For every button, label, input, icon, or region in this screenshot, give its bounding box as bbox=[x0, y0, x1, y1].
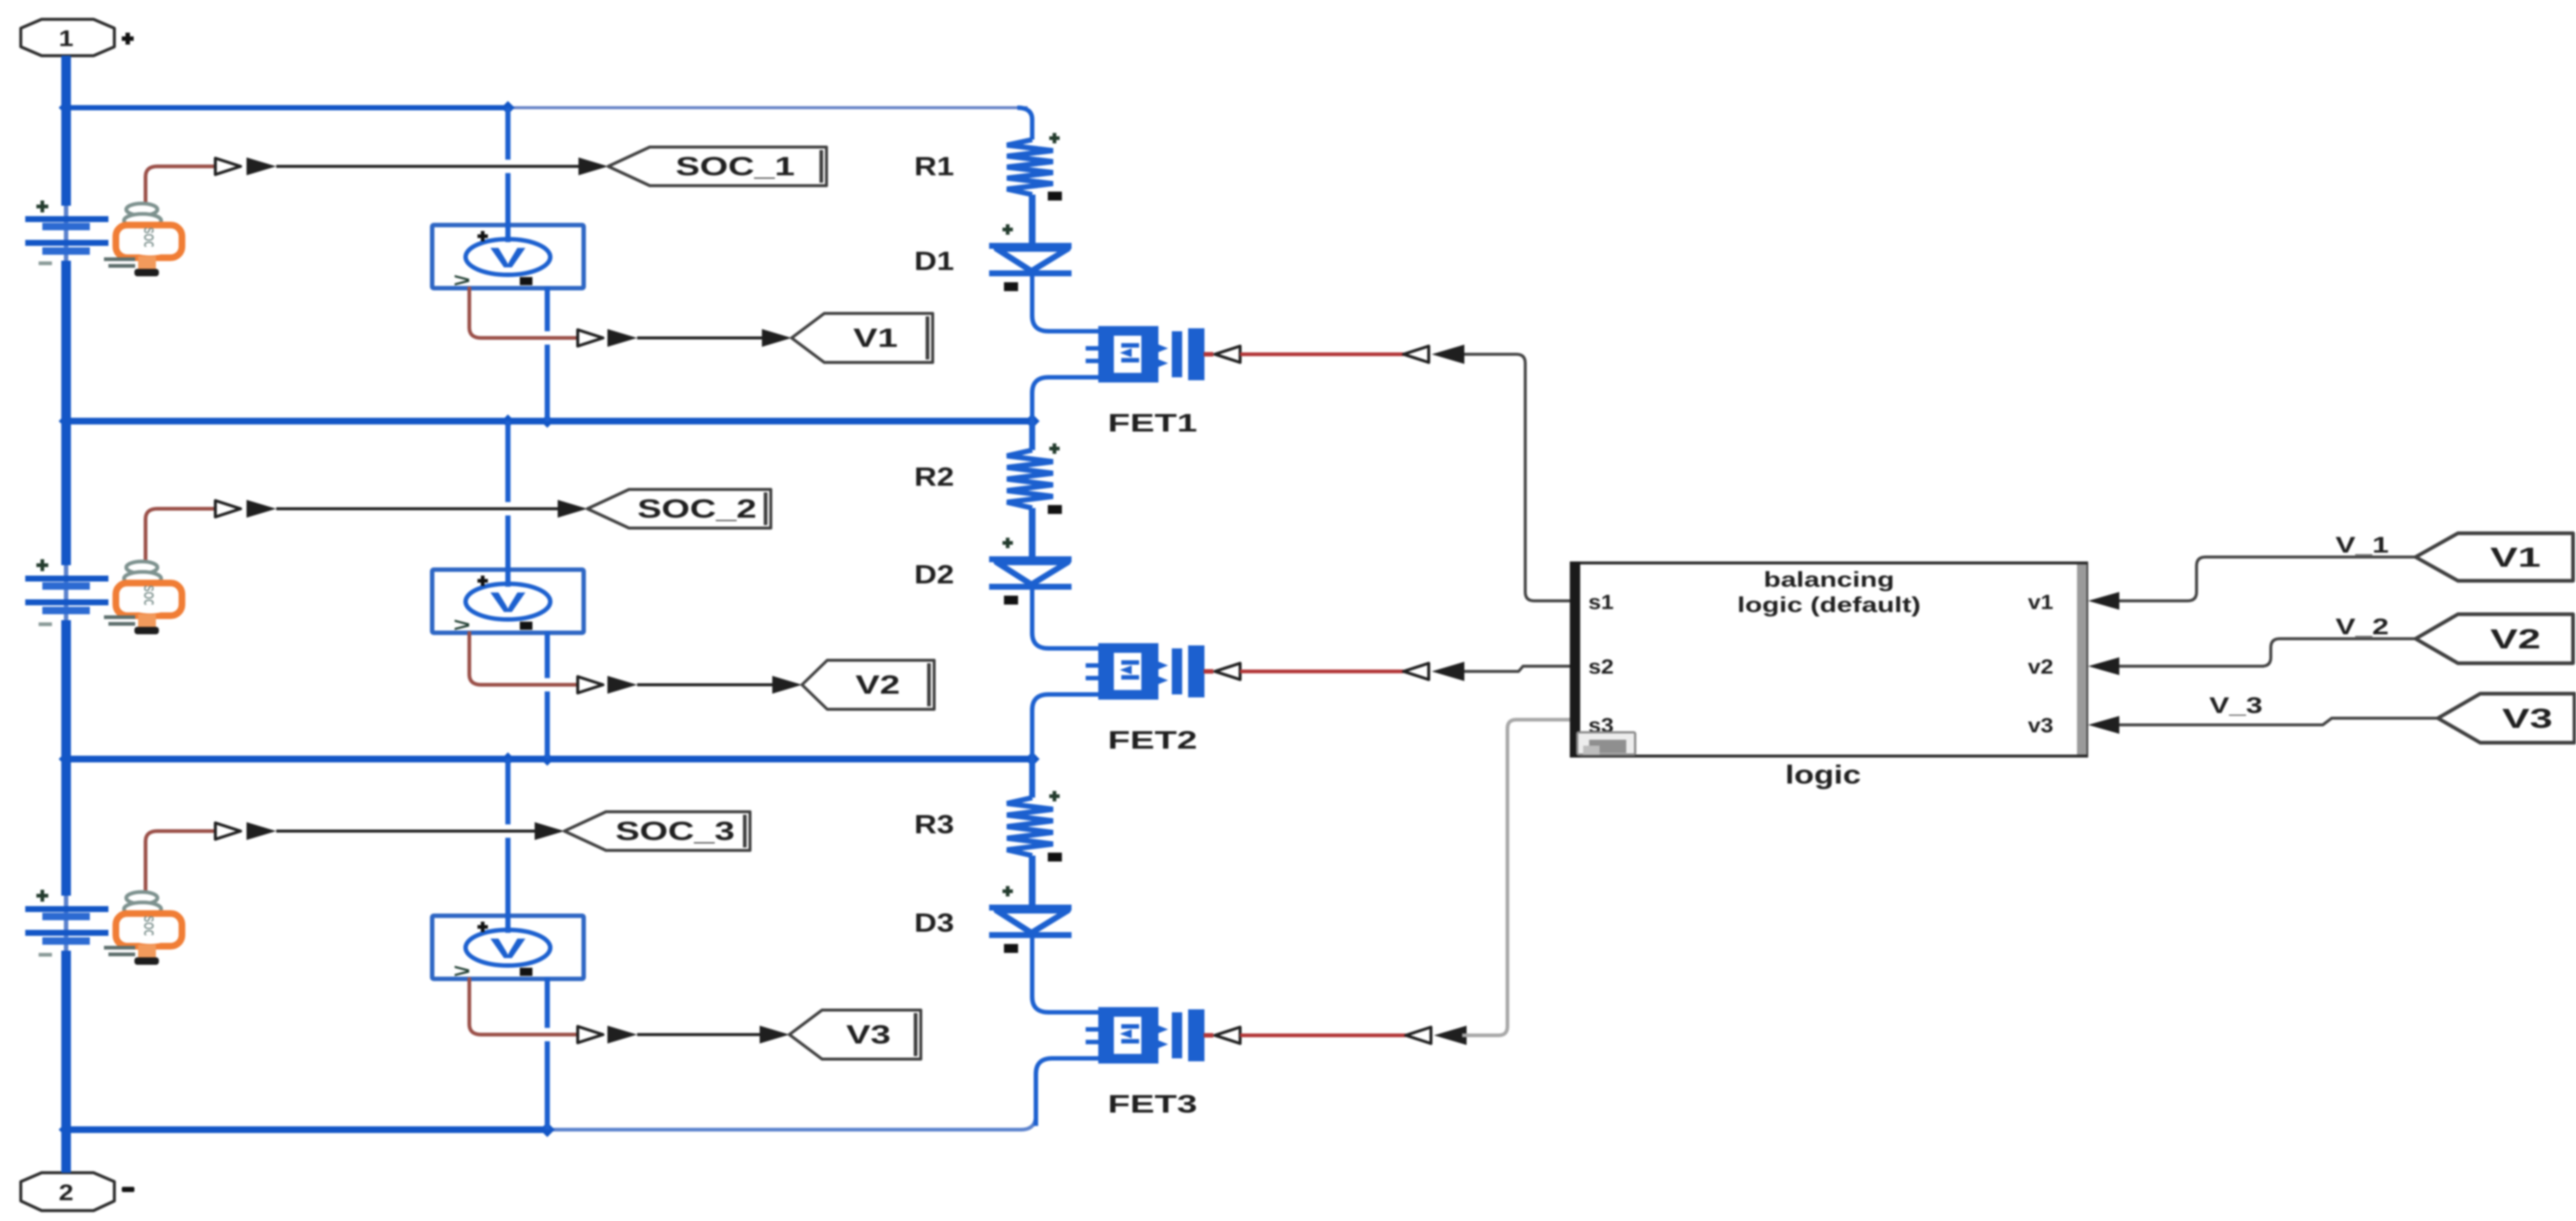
wire: V2 measurement (brown) from sensor output to signal line bbox=[469, 631, 578, 685]
svg-text:logic (default): logic (default) bbox=[1737, 593, 1920, 617]
gate arrow pair s1 (solid) bbox=[1432, 345, 1464, 364]
svg-text:R3: R3 bbox=[914, 810, 954, 839]
R1 - terminal dot bbox=[1048, 192, 1062, 201]
balancing logic block right port bar bbox=[2077, 564, 2087, 755]
signal arrow (solid) SOC_1 bbox=[247, 157, 276, 175]
wire: gate red line FET2 bbox=[1240, 670, 1403, 674]
voltage sensor V3 block (cell 3) bbox=[432, 916, 584, 982]
wire: main vertical bus from port 1 to port 2 bbox=[62, 56, 71, 1173]
SOC sensor 3 (state-of-charge sensor, cell 3) bbox=[104, 892, 182, 965]
D3 - terminal dot bbox=[1004, 944, 1018, 953]
balancing logic block left port bar bbox=[1570, 561, 1580, 758]
svg-text:V: V bbox=[490, 242, 526, 273]
SOC sensor 1 (state-of-charge sensor, cell 1) bbox=[104, 203, 182, 276]
FET1 gate stub (red) bbox=[1204, 352, 1213, 356]
signal arrow (solid) SOC_3 bbox=[247, 822, 276, 840]
node: bus3 junction at main bus bbox=[59, 752, 74, 766]
signal arrow at SOC_3 tag bbox=[535, 822, 564, 840]
signal arrow at V1 tag bbox=[762, 329, 792, 347]
signal arrow at SOC_2 tag bbox=[558, 500, 587, 518]
label D2 bbox=[914, 561, 954, 590]
svg-text:SOC: SOC bbox=[140, 585, 156, 606]
SOC sensor 2 (state-of-charge sensor, cell 2) bbox=[104, 561, 182, 634]
node: bus2 junction at main bus bbox=[59, 414, 74, 429]
label R2 bbox=[914, 463, 954, 492]
net label V_1 bbox=[2335, 532, 2389, 558]
goto tag SOC_1 bbox=[608, 147, 826, 186]
battery cell 2 + mark bbox=[36, 559, 48, 571]
node: bus3 junction at sensor feed bbox=[501, 752, 515, 766]
diode D1 bbox=[989, 246, 1072, 273]
node: bus2 junction at balancing chain bbox=[1025, 414, 1040, 429]
port label s3 bbox=[1588, 714, 1614, 737]
wire: FET1 source to bus2 bbox=[1032, 377, 1099, 421]
svg-text:D1: D1 bbox=[914, 247, 954, 276]
label logic (block name) bbox=[1785, 761, 1861, 789]
wire: R1 to D1 bbox=[1029, 195, 1036, 246]
wire: V2 signal line bbox=[637, 683, 775, 686]
wire: FET3 source to bus4 bbox=[1036, 1058, 1099, 1126]
signal arrow (solid) V1 bbox=[607, 329, 637, 347]
voltage sensor V2 block (cell 2) bbox=[432, 570, 584, 636]
gate arrow pair s2 (open) bbox=[1403, 663, 1429, 680]
battery cell 3 - mark bbox=[39, 953, 52, 957]
svg-text:v1: v1 bbox=[2028, 590, 2053, 613]
wire: D3 to FET3 drain bbox=[1032, 935, 1099, 1012]
input arrow v1 bbox=[2088, 592, 2119, 610]
svg-text:logic: logic bbox=[1785, 761, 1861, 789]
battery cell 2 - mark bbox=[39, 622, 52, 626]
wire: SOC_2 signal line bbox=[276, 507, 561, 510]
label R1 bbox=[914, 152, 954, 181]
svg-text:SOC: SOC bbox=[140, 227, 156, 248]
wire: bus 3 (cell2-/cell3+) bbox=[62, 756, 1032, 763]
wire: cell3 sensor feed (bus3 to V3 sensor +) bbox=[506, 759, 511, 933]
battery cell 3 + mark bbox=[36, 890, 48, 902]
voltage sensor V1 block (cell 1) bbox=[432, 225, 584, 291]
from tag V2 bbox=[2416, 614, 2573, 663]
D2 - terminal dot bbox=[1004, 596, 1018, 605]
wire: s1 from logic block to FET1 gate bbox=[1464, 354, 1573, 601]
signal arrow at V2 tag bbox=[772, 676, 802, 694]
svg-text:D3: D3 bbox=[914, 909, 954, 938]
svg-text:V1: V1 bbox=[2491, 541, 2541, 573]
R2 - terminal dot bbox=[1048, 505, 1062, 514]
input arrow v3 bbox=[2088, 716, 2119, 734]
FET3 gate stub (red) bbox=[1204, 1033, 1213, 1038]
svg-text:V_3: V_3 bbox=[2209, 692, 2263, 718]
label FET1 bbox=[1108, 408, 1197, 437]
wire: FET2 source to bus3 bbox=[1032, 694, 1099, 759]
node: bus2 junction at sensor return bbox=[541, 414, 554, 428]
battery cell 1 + mark bbox=[36, 201, 48, 212]
signal arrow (open) SOC_1 bbox=[215, 158, 241, 175]
svg-text:SOC_2: SOC_2 bbox=[637, 495, 757, 524]
resistor R3 (balancing resistor) bbox=[1007, 798, 1053, 856]
port label s2 bbox=[1588, 655, 1614, 678]
wire: bus 4 (bottom, cell3 -) bbox=[62, 1115, 1036, 1130]
signal arrow (solid) V3 bbox=[607, 1026, 637, 1043]
D3 + terminal mark bbox=[1002, 886, 1013, 896]
svg-text:V: V bbox=[490, 933, 526, 964]
wire: v3 input from tag V3 bbox=[2119, 718, 2438, 725]
gate arrow pair s3 (solid) bbox=[1434, 1026, 1467, 1045]
resistor R1 (balancing resistor) bbox=[1007, 140, 1053, 195]
balancing logic block title bbox=[1737, 568, 1920, 617]
R2 + terminal mark bbox=[1049, 443, 1060, 454]
port 2 (hexagonal connection port, - terminal) bbox=[21, 1173, 114, 1211]
svg-text:balancing: balancing bbox=[1764, 568, 1894, 592]
net label V_2 bbox=[2335, 613, 2389, 639]
gate open arrow at FET1 bbox=[1215, 346, 1240, 362]
svg-text:V3: V3 bbox=[847, 1020, 891, 1049]
port 2 polarity label - bbox=[122, 1187, 134, 1192]
label D1 bbox=[914, 247, 954, 276]
wire: SOC3 measurement (brown) from sensor to signal line bbox=[146, 831, 217, 890]
gate open arrow at FET3 bbox=[1215, 1027, 1240, 1043]
svg-text:V2: V2 bbox=[2491, 623, 2541, 654]
label D3 bbox=[914, 909, 954, 938]
resistor R2 (balancing resistor) bbox=[1007, 450, 1053, 508]
svg-text:V3: V3 bbox=[2502, 703, 2553, 734]
node: bus3 junction at sensor return bbox=[541, 752, 554, 766]
battery cell 1 - mark bbox=[39, 261, 52, 265]
signal arrow (open) V1 bbox=[578, 330, 603, 346]
MOSFET FET3 (balancing switch) bbox=[1086, 1007, 1204, 1064]
net label V_3 bbox=[2209, 692, 2263, 718]
svg-text:R1: R1 bbox=[914, 152, 954, 181]
svg-text:R2: R2 bbox=[914, 463, 954, 492]
label R3 bbox=[914, 810, 954, 839]
signal arrow (solid) SOC_2 bbox=[247, 500, 276, 518]
svg-text:2: 2 bbox=[59, 1180, 74, 1205]
wire: SOC_1 signal line bbox=[276, 165, 581, 168]
wire: cell2 sensor feed (bus2 to V2 sensor +) bbox=[506, 421, 511, 587]
port 1 (hexagonal connection port, + terminal) bbox=[21, 19, 114, 56]
svg-text:FET1: FET1 bbox=[1108, 408, 1197, 437]
wire: bus1 to R1 bbox=[1017, 108, 1032, 140]
wire: gate red line FET3 bbox=[1240, 1034, 1406, 1038]
wire: bus3 to R3 bbox=[1029, 759, 1035, 798]
gate arrow pair s1 (open) bbox=[1403, 346, 1429, 362]
svg-text:FET3: FET3 bbox=[1108, 1090, 1197, 1118]
port label v3 bbox=[2028, 714, 2053, 737]
wire: R2 to D2 bbox=[1029, 508, 1036, 559]
signal arrow at V3 tag bbox=[760, 1026, 789, 1043]
wire: V1 measurement (brown) from sensor output to signal line bbox=[469, 287, 578, 338]
node: bus1 junction at main bus bbox=[59, 100, 74, 115]
svg-text:FET2: FET2 bbox=[1108, 726, 1197, 754]
wire: V3 signal line bbox=[637, 1033, 763, 1036]
wire: D1 to FET1 drain bbox=[1032, 273, 1099, 331]
diode D3 bbox=[989, 908, 1072, 935]
signal arrow (open) V2 bbox=[578, 677, 603, 693]
svg-text:V_1: V_1 bbox=[2335, 532, 2389, 558]
svg-text:1: 1 bbox=[59, 26, 74, 51]
node: bus4 junction at sensor return bbox=[540, 1122, 555, 1137]
from tag V1 bbox=[2416, 533, 2573, 581]
subsystem: balancing logic block body bbox=[1571, 563, 2087, 756]
label FET3 bbox=[1108, 1090, 1197, 1118]
FET2 gate stub (red) bbox=[1204, 669, 1213, 674]
svg-text:v2: v2 bbox=[2028, 655, 2053, 678]
goto tag SOC_2 bbox=[587, 489, 771, 528]
svg-text:SOC: SOC bbox=[140, 916, 156, 937]
MOSFET FET1 (balancing switch) bbox=[1086, 326, 1204, 382]
node: bus4 junction at main bus bbox=[59, 1122, 74, 1137]
node: bus2 junction at sensor feed bbox=[501, 414, 515, 428]
wire: cell1 sensor return (V1 sensor - to bus2) bbox=[545, 287, 550, 421]
svg-text:V: V bbox=[490, 587, 526, 618]
port label v1 bbox=[2028, 590, 2053, 613]
goto tag V1 bbox=[792, 313, 933, 362]
wire: s2 from logic block to FET2 gate bbox=[1464, 666, 1573, 671]
wire: bus2 to R2 bbox=[1029, 421, 1035, 450]
gate arrow pair s3 (open) bbox=[1406, 1027, 1431, 1043]
MOSFET FET2 (balancing switch) bbox=[1086, 643, 1204, 700]
node: bus3 junction at balancing chain bbox=[1025, 752, 1040, 766]
label FET2 bbox=[1108, 726, 1197, 754]
svg-text:V1: V1 bbox=[853, 324, 898, 353]
input arrow v2 bbox=[2088, 657, 2119, 675]
wire: cell2 sensor return (V2 sensor - to bus3) bbox=[545, 631, 550, 759]
diode D2 bbox=[989, 559, 1072, 587]
goto tag SOC_3 bbox=[564, 812, 750, 850]
port label s1 bbox=[1588, 590, 1614, 613]
signal arrow (solid) V2 bbox=[607, 676, 637, 694]
wire: cell3 sensor return (V3 sensor - to bus4) bbox=[545, 977, 550, 1130]
wire: V3 measurement (brown) from sensor output to signal line bbox=[469, 977, 578, 1035]
wire: R3 to D3 bbox=[1029, 856, 1036, 908]
port 1 polarity label + bbox=[122, 33, 134, 45]
R3 + terminal mark bbox=[1049, 791, 1060, 801]
goto tag V2 bbox=[802, 660, 934, 709]
signal arrow at SOC_1 tag bbox=[578, 157, 608, 175]
wire: D2 to FET2 drain bbox=[1032, 587, 1099, 648]
wire: cell1 sensor feed (bus1 to V1 sensor +) bbox=[506, 108, 511, 242]
D2 + terminal mark bbox=[1002, 538, 1013, 548]
svg-text:V_2: V_2 bbox=[2335, 613, 2389, 639]
wire: SOC1 measurement (brown) from sensor to signal line bbox=[146, 166, 217, 202]
signal arrow (open) V3 bbox=[578, 1026, 603, 1043]
svg-text:D2: D2 bbox=[914, 561, 954, 590]
battery cell 2 (Cell2) bbox=[25, 579, 108, 610]
R3 - terminal dot bbox=[1048, 853, 1062, 862]
D1 + terminal mark bbox=[1002, 224, 1013, 235]
wire: s3 from logic block to FET3 gate (grey) bbox=[1462, 720, 1573, 1035]
svg-text:v3: v3 bbox=[2028, 714, 2053, 737]
gate open arrow at FET2 bbox=[1215, 663, 1240, 680]
port label v2 bbox=[2028, 655, 2053, 678]
svg-text:SOC_1: SOC_1 bbox=[676, 152, 795, 181]
svg-text:SOC_3: SOC_3 bbox=[616, 817, 735, 846]
goto tag V3 bbox=[789, 1010, 921, 1059]
wire: V1 signal line bbox=[637, 336, 765, 339]
wire: bus 1 (top, cell1 +) bbox=[62, 105, 1028, 111]
battery cell 3 (Cell3) bbox=[25, 909, 108, 941]
wire: v2 input from tag V2 bbox=[2119, 639, 2416, 666]
balancing logic block corner icon bbox=[1577, 732, 1635, 755]
battery cell 1 (Cell1) bbox=[25, 219, 108, 251]
D1 - terminal dot bbox=[1004, 282, 1018, 291]
from tag V3 bbox=[2438, 694, 2575, 743]
wire: SOC2 measurement (brown) from sensor to signal line bbox=[146, 509, 217, 560]
gate arrow pair s2 (solid) bbox=[1432, 662, 1464, 681]
wire: v1 input from tag V1 bbox=[2119, 557, 2416, 601]
R1 + terminal mark bbox=[1049, 133, 1060, 143]
signal arrow (open) SOC_3 bbox=[215, 823, 241, 839]
svg-text:s1: s1 bbox=[1588, 590, 1614, 613]
wire: gate red line FET1 bbox=[1240, 353, 1403, 356]
wire: SOC_3 signal line bbox=[276, 830, 538, 833]
svg-text:s2: s2 bbox=[1588, 655, 1614, 678]
svg-text:V2: V2 bbox=[855, 671, 900, 700]
node: bus1 junction at sensor feed bbox=[501, 101, 515, 114]
signal arrow (open) SOC_2 bbox=[215, 501, 241, 517]
wire: bus 2 (cell1-/cell2+) bbox=[62, 418, 1032, 425]
